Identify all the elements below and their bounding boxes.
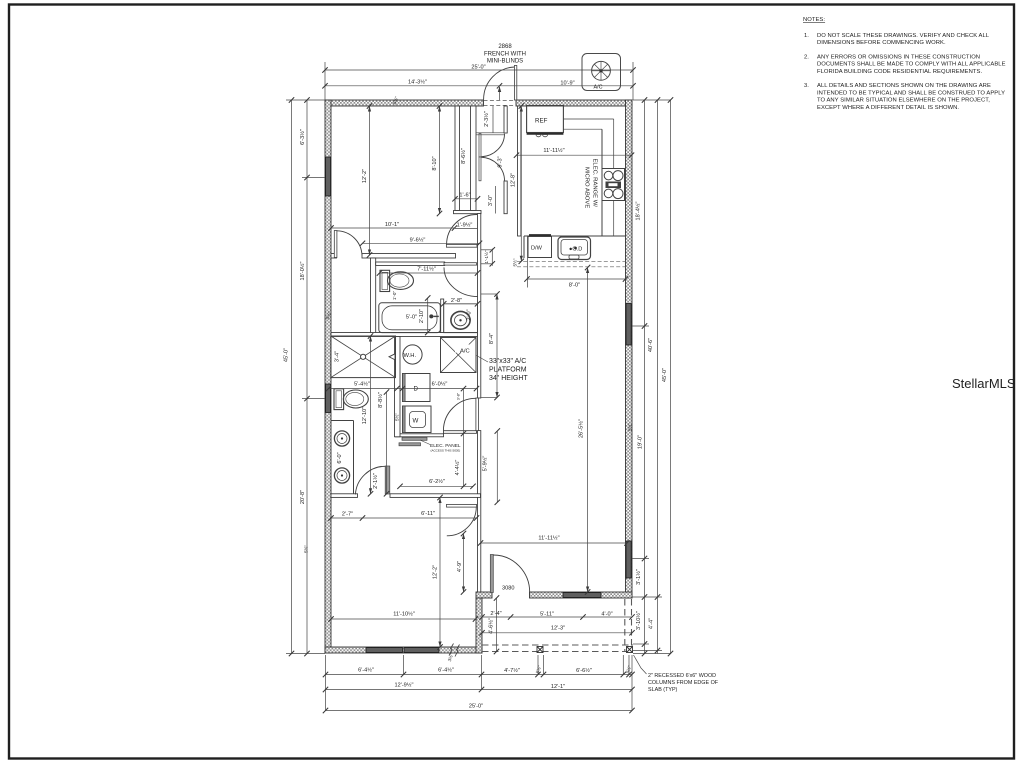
svg-text:REF: REF	[535, 118, 548, 125]
svg-text:18'-4½": 18'-4½"	[635, 202, 642, 221]
svg-text:45'-0": 45'-0"	[662, 368, 668, 382]
svg-text:8'-0": 8'-0"	[569, 283, 580, 289]
svg-text:3'-10½": 3'-10½"	[635, 611, 642, 630]
svg-text:10'-9": 10'-9"	[560, 81, 574, 87]
svg-text:1'-0": 1'-0"	[392, 291, 397, 301]
svg-text:EXCEPT WHERE A DIFFERENT DETAI: EXCEPT WHERE A DIFFERENT DETAIL IS SHOWN…	[817, 105, 959, 111]
svg-text:2" RECESSED 6'x6" WOOD: 2" RECESSED 6'x6" WOOD	[648, 673, 716, 679]
svg-text:8'-10": 8'-10"	[432, 156, 438, 170]
svg-text:StellarMLS: StellarMLS	[952, 376, 1016, 391]
svg-text:45'-0": 45'-0"	[284, 348, 290, 362]
svg-text:34" HEIGHT: 34" HEIGHT	[489, 375, 528, 382]
svg-text:5'-4½": 5'-4½"	[354, 381, 370, 388]
svg-text:D: D	[414, 386, 419, 393]
svg-text:SLAB (TYP): SLAB (TYP)	[648, 687, 678, 693]
svg-text:D/W: D/W	[531, 246, 543, 252]
svg-text:DO NOT SCALE THESE DRAWINGS. V: DO NOT SCALE THESE DRAWINGS. VERIFY AND …	[817, 33, 990, 39]
svg-text:INTENDED TO BE TYPICAL AND SHA: INTENDED TO BE TYPICAL AND SHALL BE CONS…	[817, 90, 1005, 96]
svg-text:6'-0½": 6'-0½"	[432, 381, 448, 388]
svg-text:25'-0": 25'-0"	[469, 704, 483, 710]
svg-text:●G.D: ●G.D	[569, 247, 582, 253]
svg-text:2'-7": 2'-7"	[342, 512, 353, 518]
svg-text:11'-11½": 11'-11½"	[543, 147, 564, 154]
svg-text:12'-2": 12'-2"	[433, 565, 439, 579]
svg-text:4'-7½": 4'-7½"	[504, 667, 520, 674]
svg-text:8'-8½": 8'-8½"	[377, 392, 384, 408]
svg-text:1'-9½": 1'-9½"	[457, 222, 473, 229]
svg-text:DIMENSIONS BEFORE COMMENCING W: DIMENSIONS BEFORE COMMENCING WORK.	[817, 40, 946, 46]
svg-text:3080: 3080	[502, 586, 514, 592]
svg-text:MINI-BLINDS: MINI-BLINDS	[487, 59, 523, 65]
svg-text:W.H.: W.H.	[404, 353, 417, 359]
svg-text:12'-3": 12'-3"	[551, 626, 565, 632]
svg-text:5'-9½": 5'-9½"	[482, 456, 489, 472]
svg-text:6'-2½": 6'-2½"	[429, 478, 445, 485]
svg-text:12'-2": 12'-2"	[362, 169, 368, 183]
svg-text:4'-4": 4'-4"	[649, 618, 655, 629]
svg-text:11'-10½": 11'-10½"	[393, 611, 415, 618]
svg-text:8'-6½": 8'-6½"	[460, 148, 467, 164]
svg-text:MICRO ABOVE: MICRO ABOVE	[584, 167, 590, 208]
svg-text:19'-0": 19'-0"	[638, 435, 644, 449]
svg-text:A/C: A/C	[460, 349, 470, 355]
svg-text:2'-8": 2'-8"	[451, 298, 462, 304]
svg-text:2'-0": 2'-0"	[467, 309, 473, 320]
svg-text:3'-4": 3'-4"	[335, 351, 341, 362]
svg-text:5½": 5½"	[512, 258, 518, 266]
svg-text:3'-0": 3'-0"	[488, 195, 494, 206]
svg-text:1.: 1.	[804, 33, 809, 39]
svg-text:4'-9": 4'-9"	[457, 561, 463, 572]
svg-text:12'-8": 12'-8"	[511, 173, 517, 187]
svg-text:5'-11": 5'-11"	[540, 612, 554, 618]
svg-text:5½": 5½"	[394, 413, 400, 421]
svg-text:10'-1": 10'-1"	[385, 222, 399, 228]
svg-text:9'-3": 9'-3"	[498, 156, 504, 167]
svg-text:7'-11½": 7'-11½"	[417, 266, 436, 273]
svg-text:3'-1½": 3'-1½"	[635, 569, 642, 585]
svg-text:5½": 5½"	[627, 423, 633, 431]
svg-text:26'-5½": 26'-5½"	[577, 419, 584, 438]
svg-text:3'-8": 3'-8"	[457, 392, 461, 400]
svg-text:(ACCESS THIS SIDE): (ACCESS THIS SIDE)	[431, 449, 461, 453]
svg-text:NOTES:: NOTES:	[803, 17, 825, 23]
svg-text:2'-4": 2'-4"	[490, 611, 501, 617]
svg-text:4'-6½": 4'-6½"	[488, 618, 495, 634]
svg-text:4'-4½": 4'-4½"	[454, 460, 461, 476]
svg-text:FRENCH WITH: FRENCH WITH	[484, 52, 526, 58]
svg-text:9'-6½": 9'-6½"	[410, 237, 426, 244]
svg-text:6'-3½": 6'-3½"	[299, 129, 306, 145]
svg-text:ALL DETAILS AND SECTIONS SHOWN: ALL DETAILS AND SECTIONS SHOWN ON THE DR…	[817, 83, 991, 89]
svg-text:COLUMNS FROM EDGE OF: COLUMNS FROM EDGE OF	[648, 680, 719, 686]
svg-text:FLORIDA BUILDING CODE RESIDENT: FLORIDA BUILDING CODE RESIDENTIAL REQUIR…	[817, 69, 982, 75]
svg-text:12'-1": 12'-1"	[551, 684, 565, 690]
svg-text:5'-0": 5'-0"	[406, 315, 417, 321]
svg-text:DOCUMENTS SHALL BE MADE TO COM: DOCUMENTS SHALL BE MADE TO COMPLY WITH A…	[817, 62, 1006, 68]
svg-text:PLATFORM: PLATFORM	[489, 367, 527, 374]
svg-text:5½": 5½"	[303, 545, 309, 553]
svg-text:3.: 3.	[804, 83, 809, 89]
svg-text:2'-3½": 2'-3½"	[483, 111, 490, 127]
svg-text:14'-3½": 14'-3½"	[408, 79, 427, 86]
svg-text:2.: 2.	[804, 55, 809, 61]
svg-text:4'-0": 4'-0"	[601, 612, 612, 618]
svg-text:12'-10": 12'-10"	[362, 407, 368, 424]
svg-text:A/C: A/C	[594, 85, 603, 91]
svg-text:25'-0": 25'-0"	[471, 65, 485, 71]
svg-text:1'-1½": 1'-1½"	[483, 250, 489, 263]
svg-text:12'-9½": 12'-9½"	[395, 682, 414, 689]
svg-text:2868: 2868	[498, 44, 512, 50]
svg-text:2'-1½": 2'-1½"	[372, 473, 379, 489]
svg-text:18'-0½": 18'-0½"	[299, 262, 306, 281]
svg-text:1'-6": 1'-6"	[459, 193, 470, 199]
svg-text:6'-4½": 6'-4½"	[438, 667, 454, 674]
svg-text:2'-10": 2'-10"	[419, 309, 425, 323]
svg-text:ELEC. RANGE W/: ELEC. RANGE W/	[592, 159, 598, 208]
svg-text:ANY ERRORS OR OMISSIONS IN THE: ANY ERRORS OR OMISSIONS IN THESE CONSTRU…	[817, 55, 980, 61]
svg-text:W: W	[413, 418, 419, 425]
svg-text:6'-0": 6'-0"	[337, 452, 343, 463]
svg-text:6'-6½": 6'-6½"	[576, 667, 592, 674]
svg-text:40'-6": 40'-6"	[648, 338, 654, 352]
svg-text:TO ANY SIMILAR SITUATION ELSEW: TO ANY SIMILAR SITUATION ELSEWHERE ON TH…	[817, 98, 990, 104]
svg-text:11'-11½": 11'-11½"	[538, 535, 559, 542]
svg-text:8'-4": 8'-4"	[489, 333, 495, 344]
svg-text:33"x33" A/C: 33"x33" A/C	[489, 358, 526, 365]
svg-text:6'-4½": 6'-4½"	[358, 667, 374, 674]
svg-text:6'-11": 6'-11"	[421, 511, 435, 517]
svg-text:20'-8": 20'-8"	[300, 490, 306, 504]
